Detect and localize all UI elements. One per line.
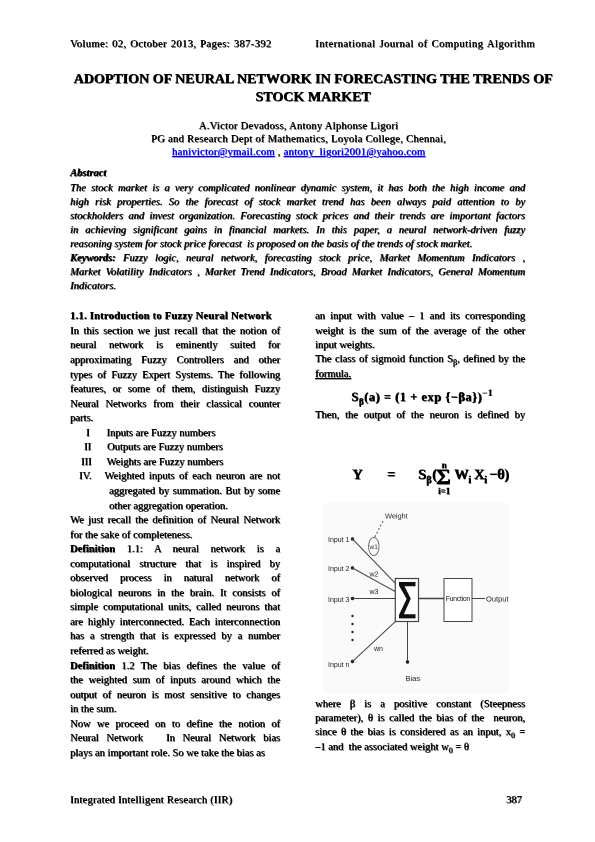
footer (70, 794, 232, 807)
summer block (sigma box) (395, 579, 418, 622)
header left (70, 38, 272, 51)
wire Input 3 to summer (353, 598, 397, 600)
abstract body (70, 182, 525, 294)
svg-text:w1: w1 (369, 544, 379, 551)
where paragraph (315, 698, 525, 755)
ellipsis dots between Input 3 and Input n (351, 615, 353, 617)
right column upper text (315, 310, 525, 381)
function block (444, 579, 472, 622)
svg-text:Input n: Input n (328, 662, 350, 669)
authors (1, 120, 595, 160)
svg-text:Input 1: Input 1 (328, 537, 350, 544)
svg-text:Output: Output (486, 595, 509, 604)
"Then, the output..." (315, 409, 525, 423)
svg-text:Input 3: Input 3 (328, 597, 350, 604)
wire Input n to summer (353, 621, 397, 662)
junction Input 3 (351, 597, 354, 600)
formula 2 (315, 461, 525, 463)
junction Input 2 (351, 566, 354, 569)
header right (315, 38, 535, 51)
svg-text:Weight: Weight (385, 512, 409, 521)
svg-text:Bias: Bias (406, 674, 421, 683)
wire Input 2 to summer (353, 568, 397, 592)
weight w1 ellipse (369, 538, 379, 556)
sigma glyph (399, 582, 416, 618)
node Bias (406, 660, 409, 663)
junction Input n (351, 660, 354, 663)
svg-text:wn: wn (373, 646, 383, 653)
svg-text:Input 2: Input 2 (328, 566, 350, 573)
title (73, 71, 553, 108)
formula 1 (317, 390, 527, 405)
left column (70, 310, 280, 761)
wire: dashed leader Weight to w1 (374, 521, 383, 539)
wire Input 1 to summer (353, 539, 397, 584)
abstract heading (70, 167, 106, 180)
svg-text:w3: w3 (369, 589, 379, 596)
svg-text:w2: w2 (369, 572, 379, 579)
wire function block to output (472, 598, 485, 600)
svg-text:Function: Function (446, 596, 471, 603)
junction Input 1 (351, 537, 354, 540)
wire summer to function block (419, 598, 445, 600)
wire bias to summer (407, 622, 409, 662)
figure: neuron diagram (323, 503, 509, 693)
